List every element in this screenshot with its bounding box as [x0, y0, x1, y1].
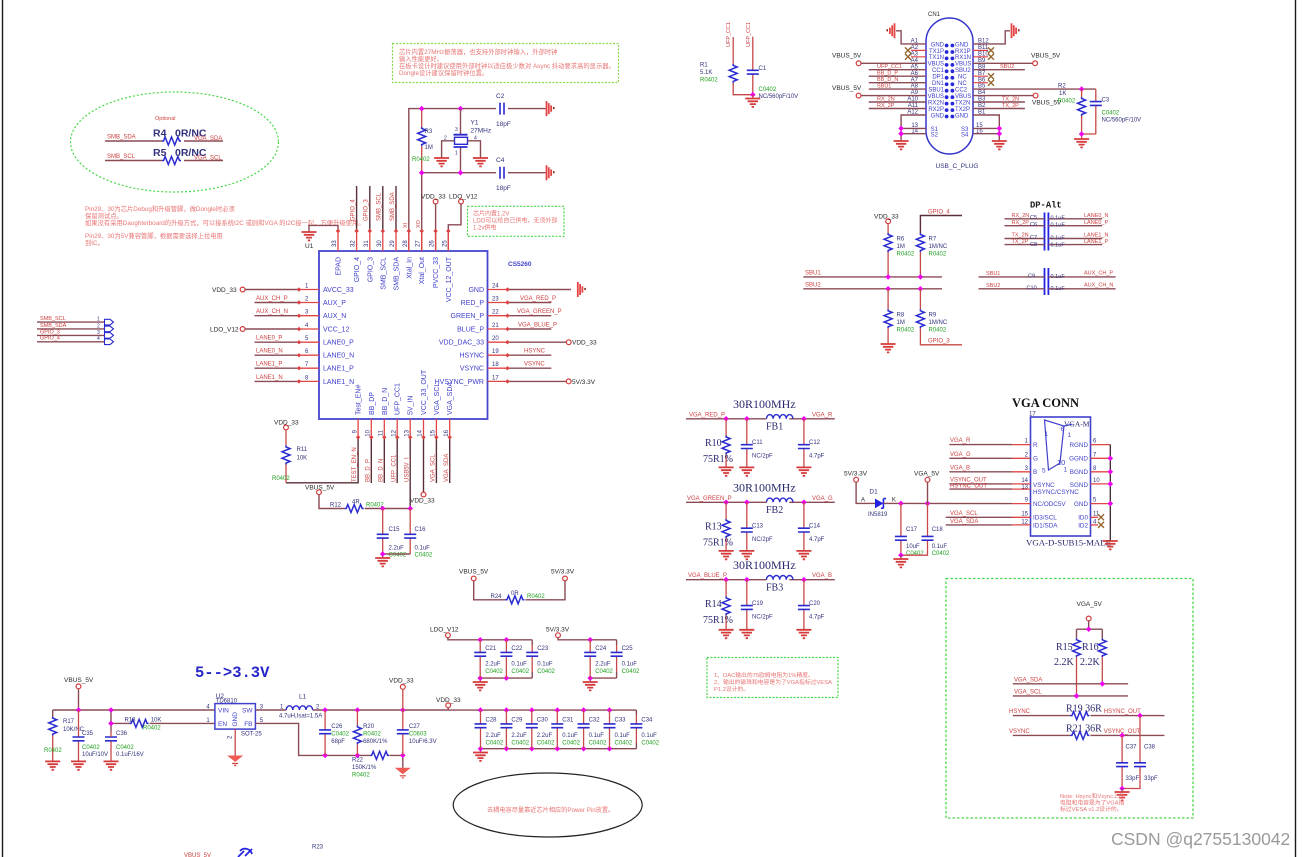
svg-text:XO: XO — [416, 219, 422, 228]
svg-text:5.1K: 5.1K — [700, 70, 712, 76]
svg-text:LANE1_N: LANE1_N — [323, 379, 354, 386]
svg-text:C36: C36 — [116, 731, 128, 737]
svg-text:SBU1: SBU1 — [877, 83, 891, 89]
svg-text:C10: C10 — [1027, 285, 1037, 291]
svg-text:R0402: R0402 — [143, 726, 161, 732]
wire VGA_BLUE_P to VGA_B — [686, 579, 835, 581]
svg-text:VGA_B: VGA_B — [812, 573, 832, 579]
svg-text:R10: R10 — [705, 438, 722, 449]
wire SMB_SCL — [37, 321, 105, 323]
svg-text:AUX_N: AUX_N — [323, 313, 346, 320]
svg-text:GND: GND — [931, 113, 945, 119]
svg-text:NC/2pF: NC/2pF — [752, 454, 773, 460]
capacitor C11 — [746, 419, 748, 468]
svg-text:VBUS_5V: VBUS_5V — [832, 53, 862, 60]
pin24 GND wire — [508, 289, 572, 291]
ferrite bead FB2 — [767, 498, 793, 502]
svg-text:PVCC_33: PVCC_33 — [433, 257, 440, 288]
ground right of C2 — [547, 101, 555, 116]
svg-text:C28: C28 — [486, 718, 498, 724]
svg-text:芯片内置1.2V: 芯片内置1.2V — [473, 210, 509, 218]
svg-text:C19: C19 — [752, 601, 764, 607]
FB feedback wire — [255, 723, 402, 767]
wire LANE0_N — [255, 354, 300, 356]
svg-text:4.7pF: 4.7pF — [809, 454, 825, 460]
svg-text:CS5260: CS5260 — [508, 261, 532, 268]
U2 gnd — [234, 729, 236, 755]
capacitor C2 — [500, 103, 504, 115]
svg-text:C0402: C0402 — [537, 741, 555, 747]
svg-text:5-->3.3V: 5-->3.3V — [195, 664, 270, 682]
svg-text:33: 33 — [332, 240, 338, 247]
svg-text:R0402: R0402 — [272, 476, 290, 482]
svg-text:10uF/10V: 10uF/10V — [82, 752, 108, 758]
svg-text:SBU1: SBU1 — [986, 271, 1000, 277]
capacitor C25 — [616, 645, 618, 672]
svg-text:C4: C4 — [496, 157, 505, 164]
svg-text:GND: GND — [232, 712, 239, 727]
svg-text:VSYNC_OUT: VSYNC_OUT — [950, 477, 987, 483]
svg-text:VDD_33: VDD_33 — [874, 214, 899, 221]
svg-text:HSYNC: HSYNC — [1009, 709, 1031, 715]
svg-text:C13: C13 — [752, 524, 764, 530]
svg-text:VGA_SDA: VGA_SDA — [444, 454, 450, 482]
svg-text:C26: C26 — [331, 724, 343, 730]
svg-text:R0402: R0402 — [352, 773, 370, 779]
svg-text:GPIO_3: GPIO_3 — [364, 199, 370, 221]
svg-text:C0402: C0402 — [1102, 111, 1120, 117]
svg-text:VGA_R: VGA_R — [950, 438, 971, 444]
svg-text:LANE1_P: LANE1_P — [323, 366, 354, 373]
svg-text:27: 27 — [416, 240, 422, 247]
svg-text:R: R — [1033, 442, 1038, 449]
svg-text:A: A — [861, 498, 865, 504]
svg-text:HSYNC: HSYNC — [459, 353, 484, 360]
svg-text:1M/NC: 1M/NC — [929, 320, 948, 326]
capacitor C9 C10 plates — [1045, 268, 1049, 295]
wire SMB_SCL to VGA_SCL — [105, 160, 223, 162]
pin1 VDD_33 power — [240, 287, 245, 292]
pin13 5V_IN wire down to R12 line — [409, 437, 411, 508]
wire AUX_CH_P — [255, 302, 300, 304]
svg-text:C0402: C0402 — [562, 741, 580, 747]
net GPIO_4 wire — [920, 216, 962, 234]
svg-text:VBUS: VBUS — [955, 62, 971, 68]
wire VGA_RED_P to VGA_R — [686, 418, 835, 420]
svg-text:30R100MHz: 30R100MHz — [733, 397, 796, 411]
svg-text:VGA_R: VGA_R — [812, 412, 833, 418]
svg-text:VGA-D-SUB15-MALE: VGA-D-SUB15-MALE — [1026, 538, 1111, 548]
resistor R9 — [920, 289, 962, 345]
svg-text:R7: R7 — [929, 237, 937, 243]
svg-text:5V_IN: 5V_IN — [408, 396, 415, 415]
svg-text:SMB_SDA: SMB_SDA — [390, 192, 396, 221]
svg-text:S4: S4 — [961, 132, 969, 138]
svg-text:VDD_33: VDD_33 — [421, 194, 446, 201]
svg-text:13: 13 — [1021, 484, 1028, 490]
svg-text:1: 1 — [1068, 432, 1072, 439]
capacitor C30 — [531, 710, 533, 749]
capacitor C16 — [409, 509, 411, 555]
svg-text:R23: R23 — [312, 845, 324, 851]
power VDD_33 — [886, 219, 891, 224]
A2 A3 stubs with X — [911, 50, 926, 56]
wire SBU2 to AUX_CH_N — [979, 288, 1116, 290]
svg-text:C0402: C0402 — [906, 551, 924, 557]
svg-text:电阻和电容是为了VGA指: 电阻和电容是为了VGA指 — [1060, 799, 1125, 807]
CN1 contact dots — [945, 44, 955, 119]
wire VGA_R — [949, 444, 1012, 446]
svg-text:AUX_CH_N: AUX_CH_N — [256, 309, 288, 315]
capacitor C3 — [1095, 89, 1097, 134]
svg-text:LANE0_N: LANE0_N — [323, 353, 354, 360]
wire TX_2N to LANE1_N — [1005, 238, 1103, 240]
svg-text:4.7pF: 4.7pF — [809, 615, 825, 621]
svg-text:SGND: SGND — [1070, 482, 1089, 489]
svg-text:R0402: R0402 — [929, 328, 947, 334]
svg-text:SMB_SCL: SMB_SCL — [377, 192, 383, 221]
svg-text:C0402: C0402 — [595, 669, 613, 675]
svg-text:到IC。: 到IC。 — [85, 239, 104, 247]
svg-text:NC/560pF/10V: NC/560pF/10V — [1102, 118, 1142, 124]
capacitor C18 — [901, 503, 928, 555]
capacitor C27 — [402, 710, 404, 755]
svg-text:19: 19 — [492, 349, 499, 355]
svg-text:C22: C22 — [511, 646, 523, 652]
capacitor C32 — [583, 710, 585, 749]
svg-text:HVSYNC_PWR: HVSYNC_PWR — [435, 379, 484, 386]
green note box DAC — [707, 658, 838, 698]
svg-text:L1: L1 — [299, 694, 307, 701]
svg-text:DP1: DP1 — [932, 75, 944, 81]
LED D2 partial — [238, 849, 252, 857]
svg-text:GPIO_4: GPIO_4 — [351, 199, 357, 221]
svg-text:R0402: R0402 — [700, 78, 718, 84]
wire HSYNC — [508, 354, 552, 356]
ground right of C4 — [547, 165, 555, 180]
svg-text:VGA_G: VGA_G — [812, 496, 833, 502]
svg-text:BB_D_N: BB_D_N — [382, 388, 389, 415]
svg-text:SBU1: SBU1 — [805, 271, 821, 277]
C15 C16 gnd wire — [383, 554, 411, 558]
svg-text:R19 36R: R19 36R — [1066, 704, 1102, 715]
svg-text:0.1uF: 0.1uF — [562, 733, 578, 739]
capacitor C19 — [746, 580, 748, 630]
connector VGA-D-SUB15-MALE box — [1031, 417, 1091, 536]
B5 CC2 wire to R2 — [973, 88, 1096, 90]
capacitor C21 — [479, 640, 481, 678]
svg-text:C0402: C0402 — [932, 551, 950, 557]
svg-text:P1.2设计的。: P1.2设计的。 — [714, 685, 749, 693]
svg-text:32: 32 — [351, 240, 357, 247]
svg-text:NC/2pF: NC/2pF — [752, 615, 773, 621]
svg-text:FB3: FB3 — [766, 582, 783, 593]
svg-text:17: 17 — [1029, 412, 1036, 418]
port chevron 3 — [105, 333, 114, 339]
frame left — [2, 0, 4, 857]
svg-text:C23: C23 — [537, 646, 549, 652]
capacitor C5 C6 C7 C8 plates — [1045, 213, 1049, 251]
B8 SBU2 — [973, 69, 1025, 71]
svg-text:C37: C37 — [1126, 745, 1138, 751]
svg-text:2.2uF: 2.2uF — [485, 662, 501, 668]
svg-text:31: 31 — [364, 240, 370, 247]
svg-text:1M/NC: 1M/NC — [929, 244, 948, 250]
svg-text:C7: C7 — [1030, 235, 1037, 241]
svg-text:AVCC_33: AVCC_33 — [323, 287, 354, 294]
svg-text:RX1P: RX1P — [955, 49, 971, 55]
svg-text:17: 17 — [492, 375, 499, 381]
pin14 VDD_33 power down — [423, 437, 425, 492]
A11 RX_2P — [869, 108, 926, 110]
svg-text:GND: GND — [1074, 501, 1088, 508]
svg-text:VBUS: VBUS — [928, 94, 944, 100]
svg-text:IN5819: IN5819 — [868, 512, 888, 518]
resistor R14 — [725, 580, 727, 630]
A5 UFP_CC1 — [869, 69, 926, 71]
svg-text:C0402: C0402 — [615, 741, 633, 747]
svg-text:R1: R1 — [700, 63, 708, 69]
VGA-M left stubs — [1012, 445, 1031, 525]
crystal Y1 — [460, 109, 462, 173]
svg-text:VGA_G: VGA_G — [950, 452, 971, 458]
svg-text:33pF: 33pF — [1126, 776, 1140, 782]
svg-text:22: 22 — [492, 310, 499, 316]
svg-text:1M: 1M — [897, 244, 905, 250]
svg-text:1、DAC输出的75欧姆电阻为1%精度。: 1、DAC输出的75欧姆电阻为1%精度。 — [714, 671, 814, 679]
svg-text:输入性能更好。: 输入性能更好。 — [399, 54, 443, 63]
capacitor C15 — [382, 509, 384, 555]
svg-text:ID2: ID2 — [1078, 522, 1088, 529]
svg-text:1K: 1K — [1059, 91, 1066, 97]
capacitor C31 — [556, 710, 558, 749]
wire RX_2P to LANE0_P — [1005, 225, 1103, 227]
svg-text:0.1uF: 0.1uF — [1051, 236, 1066, 242]
svg-text:10: 10 — [366, 429, 372, 436]
wire AUX_CH_N — [255, 315, 300, 317]
svg-text:C21: C21 — [485, 646, 497, 652]
crystal right lead to ground — [468, 141, 481, 158]
svg-text:GND: GND — [955, 113, 969, 119]
svg-text:R4: R4 — [153, 128, 167, 140]
resistor R5 — [162, 157, 181, 165]
svg-text:C0402: C0402 — [589, 741, 607, 747]
svg-text:1: 1 — [1045, 431, 1049, 438]
wire GPIO_4 — [37, 341, 105, 343]
svg-text:C35: C35 — [82, 731, 94, 737]
svg-text:LANE1_P: LANE1_P — [1084, 239, 1108, 245]
svg-text:VGA_SDA: VGA_SDA — [1014, 677, 1042, 683]
capacitor C13 — [746, 502, 748, 551]
svg-text:4: 4 — [97, 336, 100, 342]
A6 BB_D_P — [869, 75, 926, 77]
svg-text:HSYNC_OUT: HSYNC_OUT — [1104, 709, 1141, 715]
A1 GND wire to gnd — [896, 31, 926, 44]
svg-text:5V/3.3V: 5V/3.3V — [551, 569, 575, 576]
svg-text:1: 1 — [455, 151, 458, 157]
svg-text:VSYNC: VSYNC — [460, 366, 484, 373]
svg-text:VGA_5V: VGA_5V — [914, 471, 940, 478]
svg-text:VCC_12_OUT: VCC_12_OUT — [446, 256, 453, 302]
svg-text:0.1uF: 0.1uF — [1051, 216, 1066, 222]
svg-text:GND: GND — [955, 42, 969, 48]
B11 B10 stubs with X — [973, 50, 988, 56]
svg-text:VGA_SDA: VGA_SDA — [447, 382, 454, 415]
resistor R21 wire VSYNC to VSYNC_OUT — [1013, 734, 1165, 736]
svg-text:2.2K: 2.2K — [1054, 657, 1075, 668]
svg-text:25: 25 — [442, 240, 448, 247]
svg-text:TEST_EN_N: TEST_EN_N — [352, 447, 358, 482]
svg-text:TX1N: TX1N — [929, 55, 944, 61]
svg-text:ID3/SCL: ID3/SCL — [1033, 515, 1057, 522]
svg-text:SMB_SCL: SMB_SCL — [380, 257, 387, 290]
wire VGA_GREEN_P — [508, 315, 552, 317]
svg-text:DN1: DN1 — [932, 81, 945, 87]
svg-text:GPIO_4: GPIO_4 — [928, 210, 950, 216]
svg-text:3: 3 — [97, 330, 100, 336]
U1 right pin stubs 24-17 — [488, 290, 508, 382]
svg-text:1: 1 — [97, 317, 100, 323]
svg-text:14: 14 — [418, 429, 424, 436]
svg-text:C8: C8 — [1030, 242, 1037, 248]
IC U2 TD6810 — [215, 704, 256, 730]
svg-text:LANE1_N: LANE1_N — [1084, 233, 1108, 239]
svg-text:C25: C25 — [622, 646, 634, 652]
svg-text:0.1uF: 0.1uF — [589, 733, 605, 739]
svg-text:C20: C20 — [809, 601, 821, 607]
svg-text:15: 15 — [431, 429, 437, 436]
svg-text:R6: R6 — [897, 237, 905, 243]
svg-text:C31: C31 — [562, 718, 574, 724]
svg-text:NC/2pF: NC/2pF — [752, 537, 773, 543]
svg-text:FB1: FB1 — [766, 422, 783, 433]
power LDO_V12 to pin25 — [459, 199, 464, 204]
svg-text:VGA_SCL: VGA_SCL — [431, 454, 437, 482]
svg-text:C0402: C0402 — [511, 669, 529, 675]
svg-text:2.2uF: 2.2uF — [486, 733, 502, 739]
svg-text:FB2: FB2 — [766, 505, 783, 516]
svg-text:2.2uF: 2.2uF — [511, 733, 527, 739]
svg-text:SMB_SCL: SMB_SCL — [107, 154, 136, 160]
svg-text:0R: 0R — [511, 591, 519, 597]
svg-text:0.1uF: 0.1uF — [511, 662, 527, 668]
svg-text:RX_2P: RX_2P — [877, 103, 895, 109]
svg-text:VDD_33: VDD_33 — [274, 420, 299, 427]
power VDD_33 to pin26 — [433, 199, 438, 204]
svg-text:Pin29、30为芯片Debug和升级管脚，做Dongle时: Pin29、30为芯片Debug和升级管脚，做Dongle时必须 — [85, 204, 235, 213]
svg-text:24: 24 — [492, 284, 499, 290]
svg-text:VGA_GREEN_P: VGA_GREEN_P — [517, 309, 562, 315]
svg-text:GND: GND — [931, 42, 945, 48]
svg-text:LANE1_P: LANE1_P — [256, 362, 282, 368]
svg-text:VIN: VIN — [218, 708, 229, 715]
svg-text:VBUS_5V: VBUS_5V — [459, 569, 489, 576]
svg-text:VGA_SDA: VGA_SDA — [194, 136, 222, 142]
svg-text:30: 30 — [377, 240, 383, 247]
svg-text:S2: S2 — [931, 132, 939, 138]
capacitor C4 — [500, 167, 504, 179]
svg-text:75R1%: 75R1% — [703, 454, 733, 465]
svg-text:C0603: C0603 — [409, 732, 427, 738]
svg-text:2.2uF: 2.2uF — [537, 733, 553, 739]
top note box — [393, 44, 619, 83]
svg-text:R0402: R0402 — [363, 732, 381, 738]
svg-text:R0402: R0402 — [1058, 99, 1076, 105]
capacitor C36 — [105, 737, 117, 741]
svg-text:0.1uF: 0.1uF — [1051, 223, 1066, 229]
svg-text:C34: C34 — [641, 718, 653, 724]
svg-text:0.1uF: 0.1uF — [537, 662, 553, 668]
optional ellipse — [71, 92, 279, 192]
crystal left lead to ground — [442, 141, 455, 158]
svg-text:R0402: R0402 — [897, 252, 915, 258]
crystal bottom wire — [422, 172, 546, 174]
svg-text:LDO_V12: LDO_V12 — [210, 327, 239, 334]
svg-text:TD6810: TD6810 — [216, 699, 238, 705]
svg-text:VCC_33_OUT: VCC_33_OUT — [421, 369, 428, 415]
svg-text:NC/ODC5V: NC/ODC5V — [1033, 501, 1066, 508]
svg-text:C0402: C0402 — [486, 741, 504, 747]
svg-text:VDD_33: VDD_33 — [572, 340, 597, 347]
svg-text:VGA_SCL: VGA_SCL — [434, 383, 441, 415]
svg-text:C12: C12 — [809, 440, 821, 446]
svg-text:R5: R5 — [153, 147, 167, 159]
svg-text:10K: 10K — [297, 456, 308, 462]
green box sync network — [946, 579, 1193, 819]
svg-text:12: 12 — [391, 429, 397, 436]
svg-text:R16: R16 — [1082, 642, 1099, 653]
svg-text:NC/560pF/10V: NC/560pF/10V — [759, 94, 799, 100]
capacitor C34 — [635, 715, 637, 743]
svg-text:0.1uF: 0.1uF — [1051, 274, 1066, 280]
B7 B6 stubs with X — [973, 76, 988, 83]
capacitor C37 — [1121, 735, 1123, 788]
svg-text:BB_D_P: BB_D_P — [877, 71, 898, 77]
svg-text:SBU2: SBU2 — [986, 283, 1000, 289]
svg-text:SBU2: SBU2 — [1000, 64, 1014, 70]
svg-text:VDD_DAC_33: VDD_DAC_33 — [439, 340, 484, 347]
svg-text:CSDN @q2755130042: CSDN @q2755130042 — [1111, 829, 1290, 849]
svg-text:TX2N: TX2N — [955, 100, 970, 106]
svg-text:10: 10 — [1093, 478, 1100, 484]
svg-text:SBU1: SBU1 — [928, 88, 944, 94]
svg-text:0.1uF: 0.1uF — [641, 733, 657, 739]
U1 bottom pin stubs 9-16 — [358, 419, 450, 437]
svg-text:1M: 1M — [425, 145, 433, 151]
svg-text:C3: C3 — [1102, 98, 1110, 104]
svg-text:SBU2: SBU2 — [955, 68, 971, 74]
svg-text:BLUE_P: BLUE_P — [457, 327, 484, 334]
svg-text:RGND: RGND — [1069, 442, 1088, 449]
pin junction markers — [297, 229, 510, 440]
svg-text:15: 15 — [1021, 511, 1028, 517]
U1 left pin stubs 1-8 — [299, 290, 319, 382]
svg-text:SMB_SCL: SMB_SCL — [40, 316, 66, 322]
svg-text:BB_D_N: BB_D_N — [379, 459, 385, 482]
wire TX_2P to LANE1_P — [1005, 244, 1103, 246]
svg-text:USB5V_I: USB5V_I — [405, 457, 411, 482]
svg-text:C24: C24 — [595, 646, 607, 652]
svg-text:0.1uF: 0.1uF — [415, 546, 431, 552]
capacitor C35 — [78, 710, 80, 761]
capacitor C17 — [900, 503, 902, 555]
wire VGA_BLUE_P — [508, 328, 552, 330]
svg-text:VBUS_5V: VBUS_5V — [305, 485, 335, 492]
svg-text:SMB_SDA: SMB_SDA — [40, 323, 67, 329]
svg-text:1: 1 — [1064, 467, 1068, 474]
svg-text:SW: SW — [242, 708, 253, 715]
svg-text:LANE0_P: LANE0_P — [256, 336, 282, 342]
